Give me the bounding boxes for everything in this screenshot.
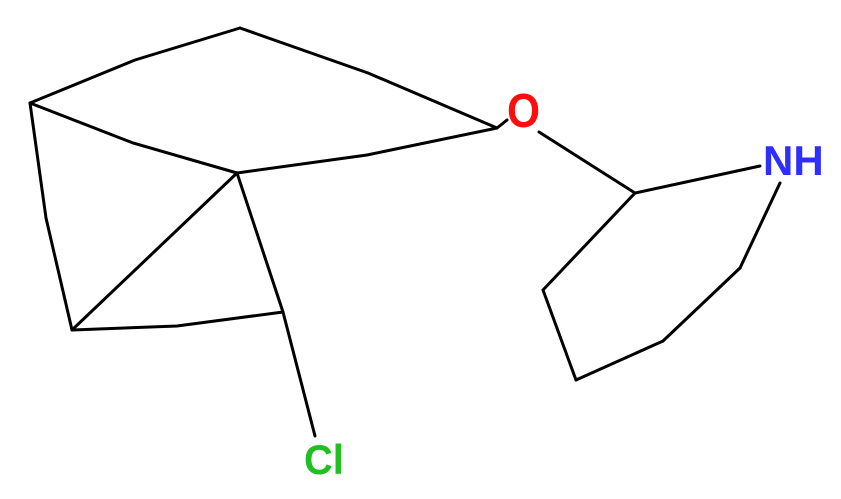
piperidine: C5-C4 bond (543, 290, 576, 380)
cage: center spoke (237, 173, 283, 312)
svg-text:Cl: Cl (304, 436, 344, 483)
svg-text:NH: NH (763, 137, 824, 184)
cage: left down edge (two bonds) (30, 103, 72, 330)
cage: roof right edge (two bonds, slight bulge) (240, 28, 497, 128)
cage: center to lower-left vertex (72, 173, 237, 330)
bond O-C right (539, 132, 635, 193)
cage: roof left edge (two bonds, slight bulge) (30, 28, 240, 103)
piperidine: C2-C6 bond (663, 268, 740, 341)
piperidine: C3-N bond (635, 166, 760, 193)
piperidine: N-C2 bond (740, 183, 780, 268)
cage: bottom left edge (two bonds) (72, 312, 283, 330)
cage: middle bridge left (two bonds, slight sag) (30, 103, 237, 173)
bond C-O left (497, 120, 507, 128)
piperidine: C4-C3 bond (543, 193, 635, 290)
piperidine: C6-C5 bond (576, 341, 663, 380)
svg-text:O: O (507, 84, 540, 138)
bond C-Cl (283, 312, 315, 436)
cage: middle bridge right (two bonds, slight sag) (237, 128, 497, 173)
